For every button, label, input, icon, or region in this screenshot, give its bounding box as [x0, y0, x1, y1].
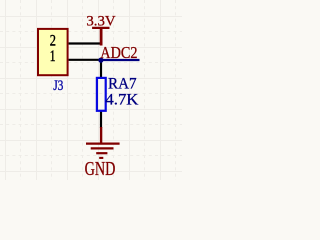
svg-text:1: 1 [50, 48, 56, 65]
svg-text:3.3V: 3.3V [86, 13, 115, 30]
svg-text:J3: J3 [53, 77, 63, 94]
svg-text:GND: GND [85, 158, 116, 180]
svg-text:4.7K: 4.7K [105, 90, 138, 109]
svg-text:ADC2: ADC2 [100, 43, 137, 62]
